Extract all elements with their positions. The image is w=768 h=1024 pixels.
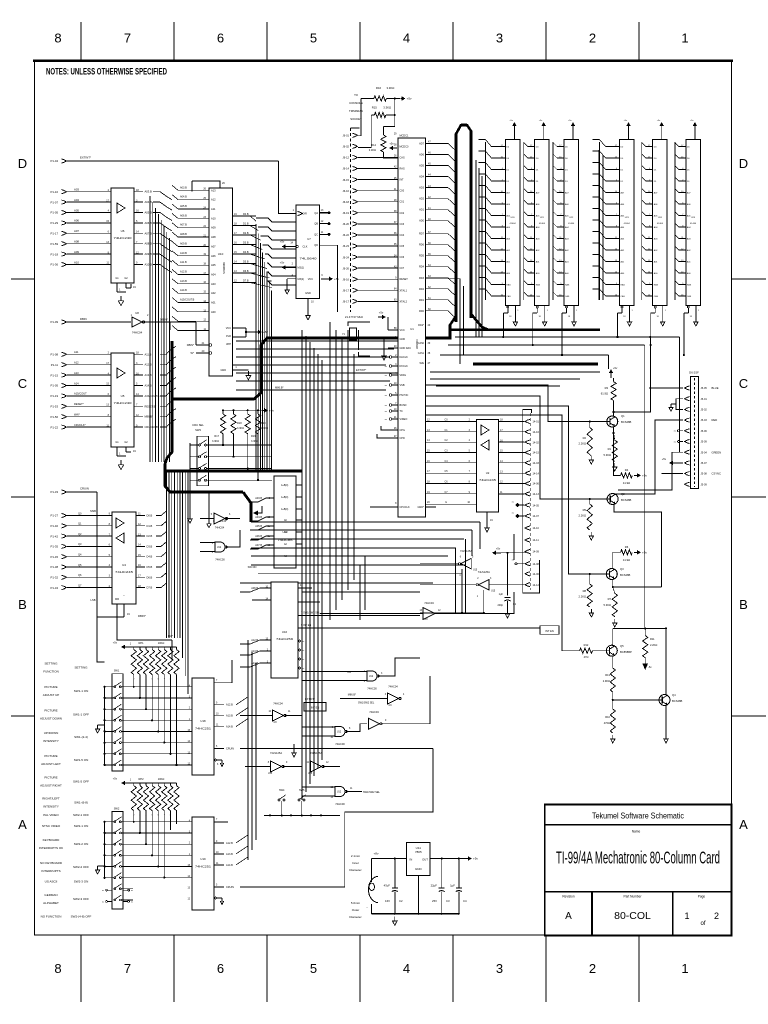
svg-text:RAS*: RAS*	[418, 324, 424, 327]
svg-text:U2: U2	[486, 471, 490, 475]
svg-text:R8: R8	[583, 589, 587, 593]
svg-text:CAS: CAS	[687, 295, 692, 298]
wire G to Q2 base	[426, 396, 608, 499]
svg-text:P1-18: P1-18	[51, 252, 59, 256]
svg-text:41464: 41464	[539, 223, 546, 225]
U19 right pins	[214, 821, 228, 823]
svg-text:BC858BP: BC858BP	[620, 650, 632, 654]
+5v arrow R3	[610, 371, 612, 374]
wire mesh mid lower	[251, 555, 448, 557]
svg-text:7: 7	[124, 31, 131, 46]
svg-text:Q3: Q3	[620, 567, 624, 571]
svg-text:7: 7	[124, 961, 131, 976]
Q2 collector to RED	[614, 420, 683, 494]
svg-text:AD6: AD6	[419, 153, 424, 156]
svg-text:J6-23: J6-23	[343, 244, 350, 248]
svg-text:C3: C3	[446, 899, 450, 903]
svg-text:M3(1): M3(1)	[298, 266, 305, 269]
DRAM group2 feed verticals	[598, 150, 600, 300]
svg-text:+5v: +5v	[642, 474, 647, 478]
svg-text:ADJUST DOWN: ADJUST DOWN	[40, 716, 62, 720]
svg-text:DBIN: DBIN	[80, 317, 87, 321]
svg-text:74HC00: 74HC00	[215, 558, 225, 562]
SW3 row wires	[214, 444, 272, 446]
J4 dashed outline	[530, 413, 532, 590]
svg-text:6: 6	[217, 961, 224, 976]
svg-text:74HC251: 74HC251	[195, 865, 212, 869]
regulator gnd pin	[417, 876, 419, 914]
svg-text:1: 1	[681, 31, 688, 46]
U1 VCC wire	[387, 317, 389, 330]
CRUCLK.B wire	[208, 492, 210, 520]
svg-text:A12: A12	[211, 198, 216, 202]
resistors R17 R18 R19 R20	[220, 414, 225, 434]
svg-text:P1-59: P1-59	[51, 242, 59, 246]
U10 top pin 26	[192, 181, 220, 188]
connector J4 lower stubs	[525, 526, 530, 530]
svg-text:74HC04: 74HC04	[132, 331, 143, 335]
svg-text:C07: C07	[400, 267, 405, 270]
svg-text:A04.B: A04.B	[145, 200, 153, 204]
DRAM U24 41464	[653, 139, 668, 305]
svg-text:C00: C00	[400, 190, 405, 193]
svg-text:CRUCLK.B*: CRUCLK.B*	[145, 425, 159, 429]
svg-text:EXTINT*: EXTINT*	[80, 156, 92, 160]
svg-text:4: 4	[403, 31, 410, 46]
U1 right pins AD7-AD0	[426, 142, 449, 144]
svg-text:P1-45: P1-45	[51, 555, 59, 559]
svg-text:P1-19: P1-19	[51, 394, 59, 398]
svg-text:B: B	[739, 597, 748, 612]
svg-text:14-02: 14-02	[533, 441, 540, 444]
svg-text:MSB: MSB	[90, 509, 96, 513]
capacitor C4	[458, 859, 460, 889]
svg-text:14-13: 14-13	[533, 493, 540, 496]
svg-text:P1-04: P1-04	[51, 159, 59, 163]
U10 lower left pins DBIN W	[196, 344, 209, 346]
svg-text:J6-14: J6-14	[343, 167, 350, 171]
DRAM U20 +5v	[513, 124, 515, 128]
svg-text:Q3: Q3	[78, 542, 82, 546]
thick bus loop	[456, 125, 471, 322]
wire U18 top pin	[228, 660, 232, 683]
SW2 row wires to U19	[133, 821, 192, 823]
svg-text:CRU SEL: CRU SEL	[192, 423, 204, 427]
svg-text:D5.B: D5.B	[147, 565, 153, 569]
svg-text:Revision: Revision	[562, 895, 574, 899]
svg-text:J5-04: J5-04	[701, 451, 708, 454]
svg-text:A: A	[565, 911, 572, 922]
svg-text:2.2KΩ: 2.2KΩ	[578, 595, 586, 599]
svg-text:14-15: 14-15	[533, 452, 540, 455]
svg-text:P1-56: P1-56	[51, 415, 59, 419]
svg-text:14-16: 14-16	[533, 431, 540, 434]
svg-text:A12: A12	[74, 361, 79, 365]
svg-text:GND*: GND*	[417, 506, 424, 509]
DRAM U24 bottom pins	[654, 306, 656, 308]
svg-text:A13: A13	[74, 371, 79, 375]
svg-text:U12: U12	[337, 732, 342, 734]
svg-text:14-10: 14-10	[533, 527, 540, 530]
svg-text:P1-09: P1-09	[51, 320, 59, 324]
svg-text:RD0: RD0	[419, 310, 425, 313]
+5v arrow J4 row	[494, 552, 501, 554]
svg-text:J6-01: J6-01	[343, 134, 350, 138]
DRAM U20 bottom pins	[507, 306, 509, 308]
svg-text:A11.B: A11.B	[180, 261, 187, 264]
svg-text:GERMAN: GERMAN	[44, 893, 57, 897]
svg-text:D4.B: D4.B	[243, 251, 249, 254]
DRAM U22 bottom pins	[566, 306, 568, 308]
U6 output wires	[134, 191, 143, 193]
svg-text:RAS: RAS	[687, 283, 692, 286]
svg-text:R13: R13	[605, 673, 610, 677]
svg-text:J5-06: J5-06	[701, 430, 708, 433]
wire long horizontals mid	[236, 372, 398, 374]
svg-text:CAS: CAS	[621, 295, 626, 298]
svg-text:J6-20: J6-20	[343, 222, 350, 226]
svg-text:5: 5	[310, 961, 317, 976]
svg-text:A07.B: A07.B	[145, 231, 153, 235]
svg-text:R17: R17	[214, 435, 219, 438]
svg-text:A08: A08	[74, 240, 79, 244]
svg-text:CAS: CAS	[654, 295, 659, 298]
svg-text:6: 6	[217, 31, 224, 46]
wire 14-06 to buffer	[462, 573, 526, 575]
NAND U12d 74HC00	[215, 542, 225, 552]
svg-text:A05.B: A05.B	[145, 211, 153, 215]
U17 GND pin	[307, 299, 309, 312]
svg-text:D: D	[739, 156, 748, 171]
svg-text:RESET.B*: RESET.B*	[145, 404, 157, 408]
svg-text:U12: U12	[369, 676, 374, 678]
svg-text:J6-16: J6-16	[343, 189, 350, 193]
svg-text:A13.B: A13.B	[145, 373, 152, 377]
svg-text:NO KEYBOARD: NO KEYBOARD	[40, 861, 63, 865]
inverter U8 74HC04 DBIN	[132, 317, 142, 327]
J5 stub J5-05 BLUE	[685, 386, 690, 390]
capacitor C3	[441, 859, 443, 889]
svg-text:+5v: +5v	[334, 277, 339, 281]
svg-text:SETTING: SETTING	[44, 662, 58, 666]
svg-text:P1-40: P1-40	[51, 524, 59, 528]
zone ticks right	[732, 278, 767, 280]
svg-text:14-14: 14-14	[533, 472, 540, 475]
svg-text:IN: IN	[410, 858, 413, 862]
J5 stub J5-03 RED	[685, 418, 690, 422]
svg-text:74LS125A: 74LS125A	[270, 751, 282, 755]
svg-text:R14: R14	[371, 143, 376, 147]
svg-text:+5v: +5v	[113, 777, 118, 781]
svg-text:3.3KΩ: 3.3KΩ	[386, 86, 394, 90]
svg-text:SW2-1 ON: SW2-1 ON	[74, 824, 89, 828]
svg-text:A08: A08	[211, 235, 216, 239]
+5v arrow R6	[634, 551, 639, 553]
svg-text:OUT: OUT	[422, 858, 428, 862]
svg-text:nc: nc	[131, 890, 133, 892]
DRAM U25 left pins	[674, 142, 676, 300]
svg-text:M86.B*: M86.B*	[145, 415, 154, 419]
U2 bottom pin	[486, 512, 488, 524]
+5v output arrow	[466, 858, 470, 860]
svg-text:U19: U19	[200, 857, 206, 861]
power input rail	[371, 858, 406, 860]
svg-text:D7.B: D7.B	[243, 280, 249, 283]
svg-text:RESET: RESET	[400, 278, 409, 281]
svg-text:D1.B: D1.B	[243, 223, 249, 226]
svg-text:3.3KΩ: 3.3KΩ	[251, 440, 258, 443]
svg-text:J5-02: J5-02	[701, 409, 708, 412]
MCDC1 pin arrow	[391, 147, 397, 149]
svg-text:Inner: Inner	[352, 861, 359, 865]
zone ticks top	[80, 22, 82, 60]
svg-text:RD3: RD3	[419, 277, 425, 280]
svg-text:74HC04: 74HC04	[369, 710, 379, 714]
svg-text:A03.B: A03.B	[255, 497, 262, 500]
SW3 ground arrow	[189, 515, 191, 519]
svg-text:21.47727 MHz: 21.47727 MHz	[345, 315, 364, 319]
svg-text:PICTURE: PICTURE	[44, 709, 57, 713]
Q1 collector to BLUE	[614, 337, 651, 412]
svg-text:SW2-2 ON: SW2-2 ON	[74, 842, 89, 846]
J5 stub J5-02	[685, 407, 690, 411]
svg-text:A: A	[18, 817, 27, 832]
DRAM U25 +5v	[694, 124, 696, 128]
J5 +5v arrow	[671, 462, 683, 464]
svg-text:2.9KΩ: 2.9KΩ	[603, 679, 610, 683]
svg-text:G: G	[445, 501, 447, 504]
svg-text:QD: QD	[314, 244, 318, 247]
svg-text:J6-16: J6-16	[343, 277, 350, 281]
svg-text:ADJUST RIGHT: ADJUST RIGHT	[40, 783, 62, 787]
svg-text:HSYNC: HSYNC	[400, 394, 409, 397]
J5 row2-3 loop	[676, 399, 683, 410]
svg-text:74HC245: 74HC245	[479, 478, 497, 482]
svg-text:D1.B: D1.B	[147, 524, 153, 528]
svg-text:AD5: AD5	[419, 164, 424, 167]
buffer U6 74HC240	[111, 188, 134, 283]
svg-text:+5v: +5v	[496, 547, 501, 551]
svg-text:J6-17: J6-17	[343, 288, 350, 292]
svg-text:INT: INT	[400, 179, 405, 182]
svg-text:A14.B: A14.B	[226, 726, 233, 729]
svg-text:LSB: LSB	[91, 598, 96, 602]
wire A12-A14 bus verticals	[247, 640, 249, 860]
svg-text:QA: QA	[314, 212, 318, 215]
IC U17 74LS640	[296, 205, 320, 299]
U6 ground	[120, 296, 122, 301]
SW3 left rail	[189, 443, 191, 480]
wire bus A vertical bundle	[149, 196, 151, 462]
svg-text:P1-27: P1-27	[51, 514, 59, 518]
transistor Q3	[606, 569, 617, 580]
svg-text:3: 3	[496, 31, 503, 46]
svg-text:Q6: Q6	[78, 573, 82, 577]
svg-text:RD4: RD4	[419, 266, 425, 269]
svg-text:SW2-2 OFF: SW2-2 OFF	[73, 865, 89, 869]
power ground arrow	[394, 917, 396, 921]
wire verticals right of loop	[475, 160, 477, 337]
svg-text:CAS: CAS	[506, 295, 511, 298]
DRAM U20 left pins	[484, 142, 486, 300]
svg-text:A03: A03	[74, 188, 79, 192]
svg-text:U15: U15	[491, 591, 496, 593]
svg-text:470Ω: 470Ω	[604, 721, 610, 725]
wire bus D vertical bundle	[165, 471, 167, 638]
wire rails below DRAM	[455, 336, 680, 338]
wire CRUIN down	[97, 492, 105, 662]
svg-text:R18: R18	[237, 422, 242, 425]
wire rail drop to J5 area	[679, 337, 681, 452]
wire mesh upper mid	[236, 340, 398, 342]
wire bus right of U10	[255, 224, 257, 471]
svg-text:A10.B: A10.B	[145, 263, 153, 267]
wire right verticals to gates	[455, 548, 457, 613]
svg-text:A09: A09	[211, 226, 216, 230]
svg-text:A06.B: A06.B	[145, 221, 153, 225]
svg-text:RD6: RD6	[419, 244, 425, 247]
svg-text:AD4: AD4	[419, 176, 424, 179]
svg-text:P1-34: P1-34	[51, 586, 59, 590]
svg-text:J5-08: J5-08	[701, 473, 708, 476]
svg-text:A14.B: A14.B	[180, 289, 187, 292]
svg-text:J6-02: J6-02	[343, 145, 350, 149]
svg-text:C4: C4	[463, 899, 467, 903]
svg-text:GND: GND	[220, 369, 226, 372]
vertical to Q4	[665, 628, 667, 694]
svg-text:10KΩ: 10KΩ	[158, 777, 165, 781]
svg-text:A05: A05	[211, 263, 216, 267]
svg-text:A03: A03	[211, 282, 216, 286]
+5v arrow R4	[634, 474, 639, 476]
svg-text:MCDC1: MCDC1	[400, 134, 409, 137]
svg-text:+5v: +5v	[280, 261, 285, 265]
svg-text:U8: U8	[135, 311, 139, 315]
thick bus RAS rail	[449, 328, 600, 331]
svg-text:A06.B: A06.B	[180, 214, 187, 217]
svg-text:SETTING: SETTING	[74, 666, 88, 670]
svg-text:J5-03: J5-03	[701, 419, 708, 422]
svg-text:BCS48B: BCS48B	[621, 420, 632, 424]
IC U10 bus interface	[209, 188, 233, 376]
svg-text:RESET*: RESET*	[74, 402, 84, 406]
thick bus funnel right	[471, 314, 488, 330]
svg-text:74LS640: 74LS640	[300, 257, 317, 261]
svg-text:AD7: AD7	[419, 142, 424, 145]
svg-text:NTSC VIDEO: NTSC VIDEO	[42, 824, 61, 828]
svg-text:C06: C06	[400, 256, 405, 259]
svg-text:VIDEO: VIDEO	[400, 418, 408, 421]
U18 enable pin	[215, 759, 217, 761]
svg-text:1μF: 1μF	[499, 593, 504, 596]
svg-text:J6-26: J6-26	[343, 266, 350, 270]
svg-text:8: 8	[54, 31, 61, 46]
svg-text:A07: A07	[74, 229, 79, 233]
SW1 ground	[98, 724, 105, 726]
SW2 left rail	[104, 822, 106, 879]
svg-text:A05: A05	[74, 208, 79, 212]
svg-text:2: 2	[589, 31, 596, 46]
wire bundle mid verticals 2	[329, 322, 331, 620]
wire EXTINT to U17 DIR	[279, 161, 297, 214]
svg-text:SW4: SW4	[279, 789, 285, 792]
svg-text:P1-07: P1-07	[51, 200, 59, 204]
J5 stub J5-08 CSYNC	[685, 472, 690, 476]
U16 right pins	[298, 587, 312, 589]
transistor Q5	[606, 645, 617, 656]
svg-text:A10: A10	[74, 260, 79, 264]
svg-text:74HC00: 74HC00	[335, 802, 345, 806]
svg-text:P1-38: P1-38	[51, 565, 59, 569]
svg-text:UPP: UPP	[226, 343, 231, 346]
svg-text:74LS125A: 74LS125A	[310, 751, 322, 755]
U13 arrow left	[256, 506, 262, 513]
svg-text:A03.B: A03.B	[180, 186, 187, 189]
svg-text:Y1: Y1	[342, 332, 346, 336]
switch rail	[264, 814, 340, 816]
J5 stub J5-04 GREEN	[685, 450, 690, 454]
J5 nc stubs	[678, 430, 680, 432]
svg-text:QB: QB	[314, 223, 318, 226]
svg-text:CAS: CAS	[536, 295, 541, 298]
svg-text:A15/COUT: A15/COUT	[74, 392, 87, 396]
svg-text:C03: C03	[400, 223, 405, 226]
svg-text:U16: U16	[282, 630, 288, 634]
svg-text:3.3KΩ: 3.3KΩ	[369, 148, 376, 152]
drawing border frame	[35, 60, 732, 935]
svg-text:D3.B: D3.B	[147, 544, 153, 548]
svg-text:61.9Ω: 61.9Ω	[601, 392, 608, 396]
R2 ground	[590, 456, 592, 460]
svg-text:A04.B: A04.B	[255, 516, 262, 519]
svg-text:M3(2): M3(2)	[298, 278, 305, 281]
svg-text:C04: C04	[400, 234, 405, 237]
svg-text:A04: A04	[211, 272, 216, 276]
svg-text:2.2KΩ: 2.2KΩ	[650, 643, 657, 647]
svg-text:EXTINT*: EXTINT*	[356, 368, 366, 372]
svg-text:200p: 200p	[497, 604, 503, 607]
svg-text:SW1-1 ON: SW1-1 ON	[74, 689, 89, 693]
svg-text:D4.B: D4.B	[147, 555, 153, 559]
svg-text:P1-10: P1-10	[51, 190, 59, 194]
svg-text:SW DN: SW DN	[248, 565, 257, 569]
U17 M3(2) pin gnd	[287, 278, 296, 280]
DRAM U22 left pins	[552, 142, 554, 300]
svg-text:C02: C02	[400, 212, 405, 215]
svg-text:RIGHT/LEFT: RIGHT/LEFT	[42, 797, 60, 801]
svg-text:CLK: CLK	[303, 246, 308, 249]
svg-text:U15: U15	[268, 773, 273, 775]
svg-text:74HC240: 74HC240	[114, 401, 132, 405]
zone ticks bottom	[80, 935, 82, 1002]
power ground rail	[371, 913, 459, 915]
svg-text:R15: R15	[372, 105, 378, 109]
svg-text:74HC04: 74HC04	[388, 685, 398, 689]
svg-text:CAS1: CAS1	[418, 352, 425, 355]
svg-text:U18: U18	[200, 719, 206, 723]
IC U16 74HC259	[271, 582, 298, 678]
DRAM U23 bottom pins	[621, 306, 623, 308]
svg-text:SW1-(6-8): SW1-(6-8)	[74, 801, 88, 805]
svg-text:A13.B: A13.B	[226, 853, 233, 856]
svg-text:BCS48B: BCS48B	[621, 498, 632, 502]
boxed INT EN label	[540, 626, 559, 634]
svg-text:41464: 41464	[624, 223, 631, 225]
U1 CPG CPD wires	[381, 426, 388, 430]
svg-text:GND DAC: GND DAC	[400, 347, 412, 350]
U1 VCC +5v arrow	[378, 316, 384, 318]
svg-text:D0.B: D0.B	[147, 514, 153, 518]
